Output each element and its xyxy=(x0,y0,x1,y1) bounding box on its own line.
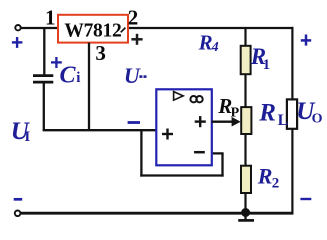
wire: pin 3 down to midline xyxy=(88,43,90,131)
wire: capacitor top lead xyxy=(43,28,45,75)
wire: feedback right vertical xyxy=(221,153,223,176)
black + after pin 2 xyxy=(131,34,142,45)
wire: capacitor bottom lead xyxy=(43,83,45,131)
op-amp U2 box xyxy=(156,89,212,165)
label - (input, blue) xyxy=(14,198,23,201)
wire: stub to op-amp inverting side xyxy=(212,152,224,154)
label - (blue, inverting node mark) xyxy=(128,121,140,124)
potentiometer RP body xyxy=(241,107,251,134)
svg-text:3: 3 xyxy=(95,41,106,65)
svg-text:U: U xyxy=(124,63,141,88)
resistor R1 xyxy=(241,46,251,74)
svg-text:1: 1 xyxy=(263,57,271,73)
resistor R2 xyxy=(241,166,251,193)
svg-text:I: I xyxy=(24,129,30,145)
wire: top rail from input terminal to regulator xyxy=(21,27,58,29)
wire: op-amp output to potentiometer wiper arrow xyxy=(212,121,234,123)
wire: divider chain vertical R1-RP-R2 xyxy=(244,28,246,212)
label + of Ci (blue) xyxy=(51,57,62,68)
label + (input, blue) xyxy=(12,37,23,48)
svg-text:R: R xyxy=(257,163,273,188)
op-amp inverting mark - xyxy=(194,151,205,154)
svg-text:1: 1 xyxy=(45,5,56,29)
svg-text:R: R xyxy=(198,30,213,54)
svg-text:2: 2 xyxy=(128,5,139,29)
capacitor Ci xyxy=(33,74,53,77)
wire: midline to op-amp + input xyxy=(43,129,157,131)
junction node (divider to ground) xyxy=(241,208,250,217)
svg-text:R: R xyxy=(258,99,276,126)
label - (output, blue) xyxy=(300,198,311,200)
resistor RL (load) xyxy=(287,99,297,128)
svg-text:O: O xyxy=(312,112,323,127)
svg-text:i: i xyxy=(76,70,80,86)
wire: feedback bottom horizontal xyxy=(140,174,223,176)
op-amp triangle symbol xyxy=(174,92,184,101)
input terminal (top left) xyxy=(15,25,20,30)
svg-text:W7812: W7812 xyxy=(64,20,121,41)
op-amp output polarity + xyxy=(195,116,206,127)
wire: feedback branch down xyxy=(140,130,142,176)
label + (output, blue) xyxy=(301,35,311,46)
op-amp infinity symbol xyxy=(190,96,196,102)
input terminal (bottom left) xyxy=(15,211,21,217)
svg-text:4: 4 xyxy=(211,40,219,55)
svg-text:P: P xyxy=(231,106,240,121)
ground xyxy=(244,213,246,220)
op-amp noninverting input + xyxy=(162,129,173,140)
svg-text:2: 2 xyxy=(272,175,280,191)
stray prime mark after W7812 xyxy=(121,28,126,33)
regulator U1: W7812 box xyxy=(58,15,128,43)
wire: right vertical branch (output) xyxy=(291,27,293,213)
wire: pin2 to top-right corner xyxy=(128,27,294,29)
wire: bottom rail xyxy=(20,212,293,215)
svg-text:C: C xyxy=(60,63,77,89)
svg-text:L: L xyxy=(278,112,289,129)
